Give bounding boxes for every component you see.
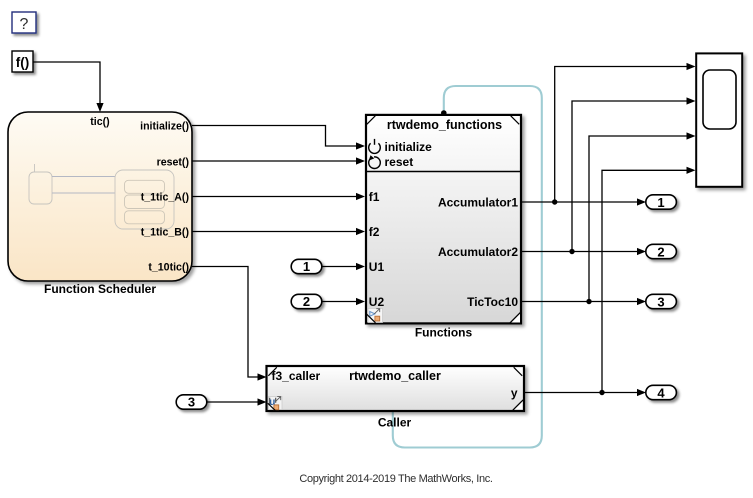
- svg-text:f1: f1: [369, 190, 380, 204]
- svg-text:1: 1: [657, 195, 664, 210]
- svg-text:Caller: Caller: [378, 416, 412, 430]
- svg-text:f(): f(): [16, 55, 30, 70]
- svg-text:initialize: initialize: [385, 140, 433, 154]
- svg-text:rtwdemo_caller: rtwdemo_caller: [349, 369, 441, 383]
- svg-text:Accumulator2: Accumulator2: [438, 245, 518, 259]
- svg-text:tic(): tic(): [90, 116, 109, 128]
- svg-text:rtwdemo_functions: rtwdemo_functions: [387, 118, 502, 132]
- svg-text:?: ?: [20, 16, 29, 33]
- svg-text:reset(): reset(): [157, 157, 189, 169]
- svg-text:initialize(): initialize(): [140, 121, 189, 133]
- svg-text:Accumulator1: Accumulator1: [438, 195, 518, 209]
- svg-text:3: 3: [657, 294, 664, 309]
- svg-text:f2: f2: [369, 225, 380, 239]
- svg-text:2: 2: [657, 244, 664, 259]
- svg-text:t_1tic_B(): t_1tic_B(): [141, 227, 189, 239]
- svg-text:f3_caller: f3_caller: [272, 369, 321, 383]
- svg-text:Functions: Functions: [415, 326, 473, 340]
- svg-text:TicToc10: TicToc10: [467, 295, 518, 309]
- svg-text:1: 1: [303, 259, 310, 274]
- svg-text:4: 4: [657, 385, 665, 400]
- svg-text:2: 2: [303, 294, 310, 309]
- svg-text:Copyright 2014-2019 The MathWo: Copyright 2014-2019 The MathWorks, Inc.: [299, 473, 493, 485]
- svg-text:U1: U1: [369, 260, 385, 274]
- svg-text:U2: U2: [369, 295, 385, 309]
- svg-text:3: 3: [188, 395, 195, 410]
- svg-text:t_10tic(): t_10tic(): [148, 262, 189, 274]
- svg-text:reset: reset: [385, 155, 414, 169]
- svg-text:Function Scheduler: Function Scheduler: [44, 282, 156, 296]
- svg-text:y: y: [511, 386, 518, 400]
- svg-text:t_1tic_A(): t_1tic_A(): [141, 192, 189, 204]
